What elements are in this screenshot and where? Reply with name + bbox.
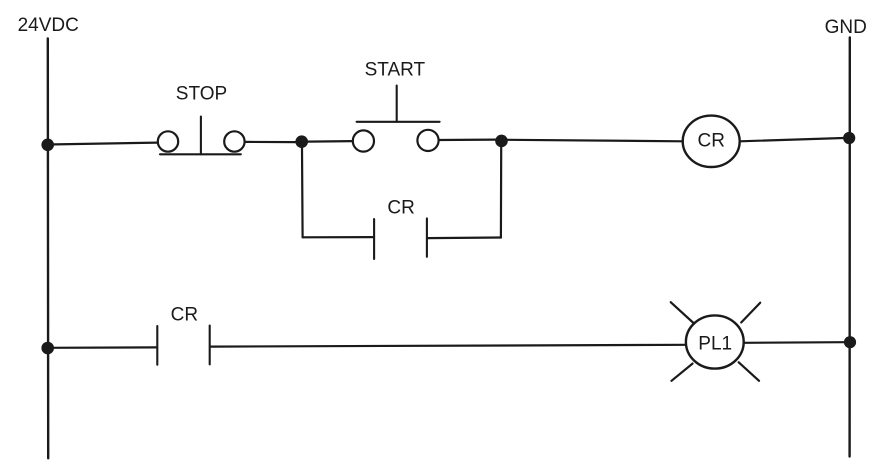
relay coil CR bbox=[683, 116, 740, 167]
right power rail GND bbox=[848, 38, 851, 457]
junction on right rail at rung 2 bbox=[844, 336, 856, 348]
wire: coil CR to right rail bbox=[740, 138, 844, 141]
svg-text:CR: CR bbox=[697, 130, 724, 151]
pushbutton STOP (normally-closed) bbox=[158, 117, 245, 155]
wire: node B to coil CR bbox=[508, 140, 683, 142]
junction node A bbox=[295, 135, 308, 148]
wire: STOP to node A bbox=[245, 141, 296, 143]
wire: seal-in contact right to branch bbox=[428, 236, 501, 239]
svg-text:CR: CR bbox=[387, 198, 414, 219]
wire: node A down to seal-in branch bbox=[301, 148, 304, 237]
wire: left rail to STOP contact bbox=[48, 143, 158, 145]
wire: contact CR to pilot light PL1 bbox=[211, 345, 686, 347]
contact CR seal-in (normally-open) bbox=[374, 218, 427, 259]
contact CR (normally-open) rung 2 bbox=[157, 326, 209, 365]
svg-text:START: START bbox=[365, 59, 426, 80]
wire: branch up to node B bbox=[500, 147, 503, 238]
svg-text:24VDC: 24VDC bbox=[18, 15, 79, 36]
wire: left rail to contact CR rung 2 bbox=[48, 346, 157, 349]
wire: START to node B bbox=[439, 139, 496, 142]
wire: node A to START bbox=[308, 140, 353, 143]
junction on left rail at rung 1 bbox=[41, 139, 54, 152]
svg-text:CR: CR bbox=[171, 304, 198, 325]
wire: branch to seal-in contact left bbox=[303, 236, 373, 238]
junction node B bbox=[495, 135, 508, 148]
svg-text:PL1: PL1 bbox=[698, 334, 732, 355]
junction on left rail at rung 2 bbox=[41, 342, 54, 355]
svg-text:STOP: STOP bbox=[176, 84, 227, 105]
left power rail 24VDC bbox=[47, 39, 50, 459]
svg-text:GND: GND bbox=[825, 17, 867, 38]
pushbutton START (normally-open) bbox=[353, 86, 440, 152]
pilot light PL1 bbox=[671, 302, 761, 381]
junction on right rail at rung 1 bbox=[843, 132, 855, 144]
wire: PL1 to right rail bbox=[744, 341, 844, 344]
